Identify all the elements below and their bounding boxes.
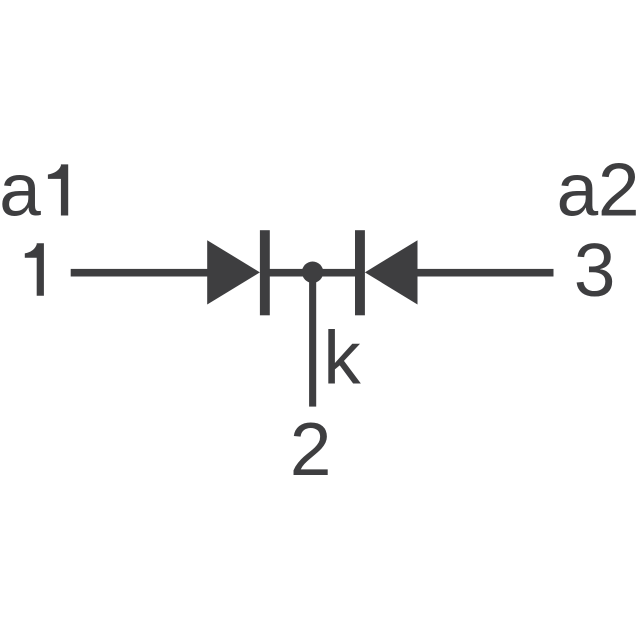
wire: pin 1 to diode D1 anode — [71, 269, 221, 277]
junction node k — [302, 262, 323, 283]
diode D1 cathode bar — [260, 230, 270, 315]
svg-text:a: a — [557, 148, 599, 232]
svg-text:a: a — [0, 148, 41, 232]
svg-text:k: k — [323, 315, 361, 399]
diode D2 cathode bar — [355, 230, 365, 315]
svg-text:3: 3 — [574, 228, 616, 312]
diode D2 anode triangle (a2) — [365, 240, 418, 304]
wire: node k down to pin 2 — [309, 272, 316, 407]
wire: D2 anode to pin 3 — [410, 269, 554, 277]
svg-text:2: 2 — [598, 148, 640, 232]
diode D1 anode triangle (a1) — [207, 240, 260, 304]
net label a1 — [0, 148, 68, 232]
pin number 1 — [25, 243, 44, 296]
svg-text:2: 2 — [290, 407, 332, 491]
net label a2 — [557, 148, 640, 232]
wire: D1 cathode to node k — [266, 269, 358, 277]
